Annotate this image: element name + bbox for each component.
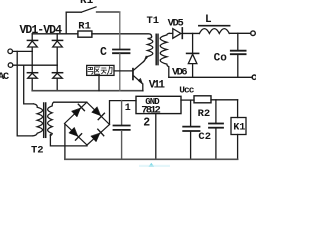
wire top AC line down to T2 primary bottom xyxy=(17,51,32,135)
wire drive box to V11 base xyxy=(114,70,132,72)
capacitor C (across DC bus) xyxy=(113,34,130,91)
svg-text:K1: K1 xyxy=(80,0,94,7)
svg-text:VD5: VD5 xyxy=(168,18,184,30)
svg-text:Co: Co xyxy=(214,53,228,65)
wire R2 to K1 riser xyxy=(211,99,238,101)
bridge diode top-left xyxy=(72,104,85,117)
label VD5 xyxy=(168,18,184,30)
diode VD5 xyxy=(169,28,199,39)
resistor R1 xyxy=(78,31,92,37)
wire top AC terminal to bridge column 1 xyxy=(13,50,33,52)
AC input terminal top xyxy=(8,49,13,54)
wire K1 coil to ground rail xyxy=(237,135,239,160)
pin label 1 xyxy=(125,103,131,114)
diode VD4 xyxy=(52,65,62,91)
bridge diode top-right xyxy=(92,107,105,120)
label R1 xyxy=(78,21,91,33)
label V11 xyxy=(149,80,166,92)
bridge diode bottom-right xyxy=(91,129,104,142)
switch K1 right riser xyxy=(119,12,121,34)
switch K1 blade and contacts xyxy=(66,7,120,12)
svg-text:C2: C2 xyxy=(198,131,211,143)
capacitor C2 xyxy=(209,100,223,160)
label C2 xyxy=(198,131,211,143)
diode VD2 xyxy=(52,34,62,65)
svg-text:2: 2 xyxy=(143,117,150,130)
resistor R2 xyxy=(194,96,211,103)
transformer T2 core xyxy=(44,103,46,137)
wire primary-side bottom rail xyxy=(32,90,143,92)
label 7812 xyxy=(141,105,161,117)
wire bridge right corner up to 7812 input xyxy=(110,101,137,125)
wire T2 secondary top to bridge top corner xyxy=(54,101,87,103)
drive block glyph 2 (dong) xyxy=(101,67,112,75)
label Ucc xyxy=(179,85,194,96)
svg-text:VD1-VD4: VD1-VD4 xyxy=(20,24,63,37)
transistor V11 xyxy=(132,56,146,90)
wire bottom AC line down to T2 primary top xyxy=(24,65,34,104)
wire L to output+ terminal xyxy=(229,32,250,34)
output terminal plus xyxy=(251,31,256,36)
wire main top rail bridge to R1 xyxy=(32,33,78,35)
drive block glyph 1 (qu) xyxy=(88,67,100,74)
wire bridge left corner to ground rail xyxy=(64,124,66,159)
pin label 2 xyxy=(143,117,150,130)
label K1 (top, clipped) xyxy=(80,0,94,7)
wire drive box ground leg xyxy=(98,75,100,90)
capacitor C3 (7812 output filter) xyxy=(183,100,199,159)
diode VD1 xyxy=(27,34,37,52)
bridge diode bottom-left xyxy=(69,127,82,140)
transformer T1 secondary winding xyxy=(160,33,169,77)
wire T2 secondary bottom to bridge bottom corner xyxy=(50,135,87,146)
capacitor C1 xyxy=(114,101,130,160)
relay coil K1 box xyxy=(231,118,246,135)
transformer T1 primary winding xyxy=(145,37,152,59)
wire secondary-side bottom rail xyxy=(169,76,253,78)
label C xyxy=(100,46,107,59)
label T2 xyxy=(31,144,44,156)
label R2 xyxy=(198,108,211,120)
svg-text:R1: R1 xyxy=(78,21,91,33)
capacitor Co xyxy=(231,33,246,77)
wire bottom AC terminal to bridge column 2 xyxy=(13,64,57,66)
wire 7812 pin2 to ground rail xyxy=(155,114,157,160)
svg-text:K1: K1 xyxy=(233,122,245,133)
label GND xyxy=(145,97,160,107)
svg-text:1: 1 xyxy=(125,103,131,114)
wire control ground rail xyxy=(65,158,238,160)
output terminal minus xyxy=(252,75,256,79)
label VD1-VD4 xyxy=(20,24,63,37)
label K1 relay xyxy=(233,122,245,133)
svg-text:Ucc: Ucc xyxy=(179,85,194,96)
regulator 7812 box xyxy=(136,96,181,113)
diode VD3 xyxy=(27,51,37,90)
AC input terminal bottom xyxy=(8,63,13,68)
svg-text:T2: T2 xyxy=(31,144,44,156)
svg-text:R2: R2 xyxy=(198,108,211,120)
svg-text:AC: AC xyxy=(0,71,10,83)
wire main top rail R1 to T1 primary xyxy=(92,34,152,37)
svg-text:7812: 7812 xyxy=(141,105,161,117)
svg-text:L: L xyxy=(205,14,212,26)
drive block box xyxy=(87,65,114,75)
svg-text:V11: V11 xyxy=(149,80,166,92)
label VD6 xyxy=(172,67,188,79)
transformer T2 primary winding xyxy=(33,104,43,136)
diode VD6 freewheel xyxy=(187,33,199,77)
bridge diamond outline xyxy=(65,102,110,145)
svg-text:C: C xyxy=(100,46,107,59)
label T1 xyxy=(147,15,160,27)
svg-text:T1: T1 xyxy=(147,15,160,27)
switch K1 left riser xyxy=(65,12,67,34)
transformer T1 core xyxy=(156,34,158,64)
wire 7812 output to R2 xyxy=(181,99,194,101)
watermark cyan smear xyxy=(139,163,170,167)
label Co xyxy=(214,53,228,65)
label L xyxy=(205,14,212,26)
wire Ucc rail down to K1 coil xyxy=(237,100,239,118)
inductor L xyxy=(199,26,230,34)
node AC label xyxy=(0,71,10,83)
transformer T2 secondary winding xyxy=(48,102,54,135)
